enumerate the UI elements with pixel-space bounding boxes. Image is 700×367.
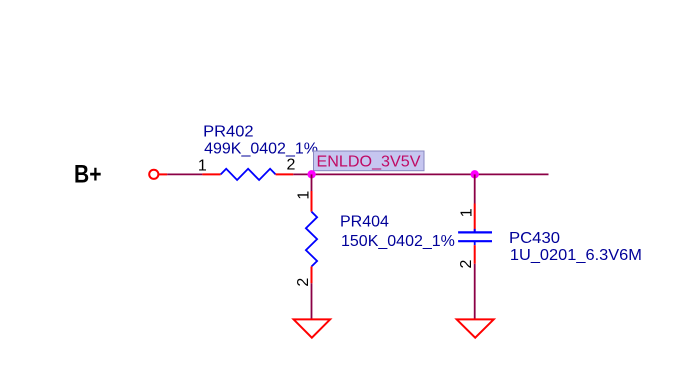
- svg-text:B+: B+: [74, 160, 102, 188]
- capacitor PC430: [458, 204, 492, 264]
- junction node ENLDO_3V5V: [307, 170, 315, 178]
- svg-text:150K_0402_1%: 150K_0402_1%: [341, 233, 455, 250]
- net label ENLDO_3V5V: [314, 151, 425, 171]
- svg-text:2: 2: [287, 156, 296, 173]
- svg-text:1: 1: [458, 208, 475, 217]
- svg-text:1U_0201_6.3V6M: 1U_0201_6.3V6M: [510, 247, 642, 264]
- wire: [167, 173, 202, 175]
- wire: [474, 174, 476, 203]
- resistor PR402: [202, 169, 293, 180]
- svg-text:1: 1: [198, 158, 207, 175]
- wire: [311, 283, 313, 319]
- ground: [294, 319, 331, 337]
- svg-text:1: 1: [296, 191, 313, 200]
- wire: [474, 264, 476, 319]
- svg-text:PR404: PR404: [340, 214, 389, 231]
- resistor PR404: [306, 191, 317, 283]
- wire: [293, 173, 548, 175]
- junction node at PC430: [471, 170, 479, 178]
- svg-text:PC430: PC430: [509, 230, 560, 247]
- wire: [159, 173, 168, 175]
- svg-text:ENLDO_3V5V: ENLDO_3V5V: [317, 153, 421, 170]
- ground: [457, 319, 494, 337]
- svg-text:PR402: PR402: [203, 123, 254, 140]
- svg-text:2: 2: [458, 259, 475, 268]
- wire: [311, 174, 313, 191]
- svg-text:2: 2: [295, 278, 312, 287]
- svg-text:499K_0402_1%: 499K_0402_1%: [204, 140, 318, 157]
- terminal circle: [149, 170, 158, 179]
